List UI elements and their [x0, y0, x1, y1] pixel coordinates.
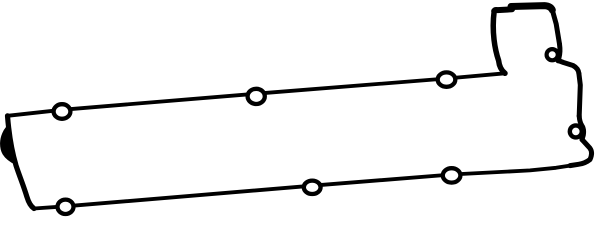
wire bottom-right bulge [570, 140, 592, 166]
wire step top edge upper run [511, 6, 552, 10]
wire top edge of gasket band [8, 73, 506, 116]
wire step right edge [552, 10, 559, 44]
hole B1 bottom-left bolt hole [58, 200, 74, 214]
hole B2 bottom-middle bolt hole [304, 181, 321, 194]
tab black filled lug on left edge [1, 125, 17, 165]
hole C5 small hole right side [570, 125, 582, 137]
wire step left edge [493, 11, 505, 73]
hole B3 bottom-right bolt hole [443, 168, 461, 182]
wire arc around right of hole C4 [558, 44, 560, 61]
wire step top edge lower ledge [494, 9, 512, 11]
hole C4 small hole in right step [547, 49, 558, 60]
wire arc around right of hole C5 [579, 116, 583, 140]
hole H2 top-middle bolt hole [248, 89, 265, 104]
hole H1 top-left bolt hole [54, 104, 71, 119]
wire left edge of gasket [8, 116, 35, 209]
wire kink right after C4 [558, 61, 579, 74]
hole H3 top-right bolt hole [438, 72, 456, 86]
wire right vertical run [579, 74, 580, 117]
wire bottom edge of gasket band [34, 166, 570, 209]
